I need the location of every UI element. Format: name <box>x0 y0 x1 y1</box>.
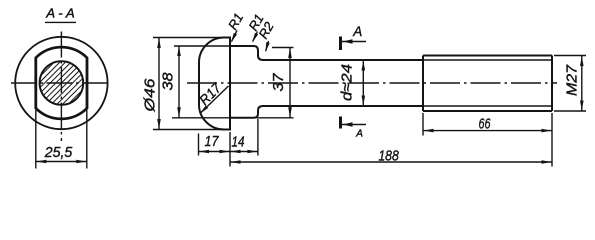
66 extension line left <box>422 113 424 136</box>
horizontal centerline of section view <box>11 82 112 84</box>
title underline <box>45 21 76 23</box>
svg-text:188: 188 <box>378 147 399 164</box>
head spherical profile R17 <box>199 38 230 130</box>
d≈24 dimension line <box>362 60 364 106</box>
head outer circle Ø46 <box>15 37 107 129</box>
vertical centerline of section view <box>60 32 62 142</box>
collar top line <box>230 45 254 47</box>
thread major diameter bottom <box>423 110 552 112</box>
bolt end line <box>551 56 553 112</box>
thread start line <box>422 56 424 112</box>
svg-text:66: 66 <box>479 115 491 132</box>
38 bottom extension line <box>172 117 294 119</box>
17/14 dimension line <box>199 151 258 153</box>
188 dimension line <box>230 161 552 163</box>
svg-text:d≈24: d≈24 <box>339 64 356 101</box>
Ø46 dimension line <box>158 38 160 130</box>
collar bottom line <box>230 117 254 119</box>
66 dimension line <box>423 130 552 132</box>
svg-text:38: 38 <box>160 72 177 91</box>
svg-text:14: 14 <box>232 134 245 151</box>
Ø46 bottom extension line <box>153 129 226 131</box>
shank top line <box>263 59 423 61</box>
section plane mark top <box>339 37 342 51</box>
38 top extension line <box>174 45 230 47</box>
14 extension line right <box>257 119 259 156</box>
section plane mark bottom <box>339 117 342 129</box>
thread major diameter top <box>423 55 552 57</box>
main centerline <box>187 82 557 84</box>
R17 leader <box>201 86 229 113</box>
step fillets bottom <box>254 106 264 118</box>
svg-text:Ø46: Ø46 <box>142 78 159 113</box>
hatching <box>5 55 117 111</box>
thread minor diameter top <box>423 59 552 61</box>
66/188 extension line right <box>551 113 553 167</box>
R1 leader (collar corner) <box>253 32 258 42</box>
svg-text:25,5: 25,5 <box>44 144 73 161</box>
17/14/188 extension line middle <box>229 132 231 167</box>
svg-text:17: 17 <box>205 133 220 150</box>
head back edge line <box>229 37 231 131</box>
17/14 extension line left <box>198 134 200 156</box>
svg-text:A - A: A - A <box>45 6 75 20</box>
R1 leader (head corner) <box>232 31 238 42</box>
M27 top extension line <box>554 55 586 57</box>
thread minor diameter bottom <box>423 105 552 107</box>
37 top extension line <box>272 47 294 49</box>
shank section circle (hatched) <box>40 61 84 105</box>
svg-text:R1: R1 <box>225 10 246 32</box>
head flats obround (width 25,5) <box>36 47 87 119</box>
extension lines for 25,5 <box>35 110 37 169</box>
dimension line 25,5 <box>36 161 87 163</box>
svg-text:A: A <box>355 128 363 139</box>
shank bottom line <box>263 105 423 107</box>
M27 bottom extension line <box>554 110 586 112</box>
Ø46 top extension line <box>153 37 226 39</box>
svg-text:A: A <box>352 24 362 39</box>
38 dimension line <box>178 46 180 118</box>
step fillets top (R1,R2) <box>254 46 264 60</box>
svg-text:M27: M27 <box>564 64 581 96</box>
37 dimension line <box>289 48 291 118</box>
R2 leader (step fillet) <box>266 41 269 51</box>
svg-text:37: 37 <box>270 73 287 92</box>
M27 dimension line <box>581 56 583 112</box>
